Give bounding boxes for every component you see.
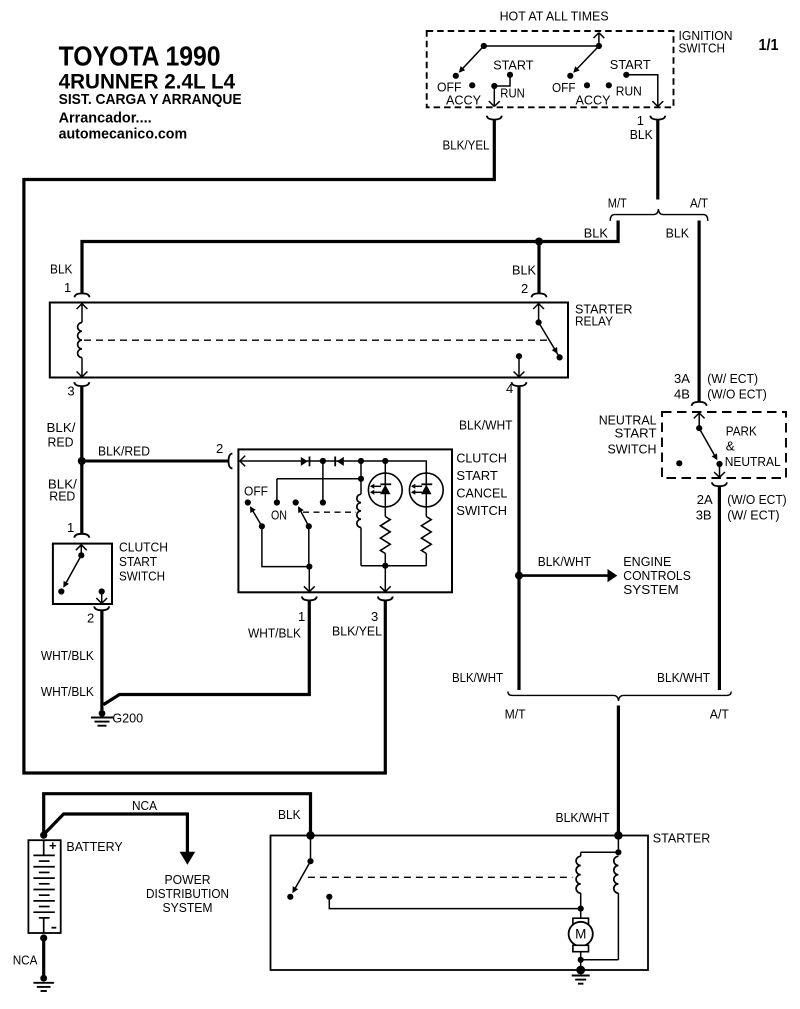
svg-text:ACCY: ACCY bbox=[576, 93, 611, 108]
svg-text:4: 4 bbox=[506, 381, 513, 396]
svg-text:BLK: BLK bbox=[666, 226, 690, 241]
svg-text:BLK/YEL: BLK/YEL bbox=[332, 624, 382, 639]
svg-text:SWITCH: SWITCH bbox=[119, 569, 165, 584]
svg-text:RED: RED bbox=[49, 489, 75, 504]
svg-text:PARK: PARK bbox=[726, 424, 757, 439]
svg-text:SYSTEM: SYSTEM bbox=[623, 582, 679, 597]
svg-text:BLK/WHT: BLK/WHT bbox=[459, 418, 513, 433]
svg-text:START: START bbox=[493, 58, 533, 73]
svg-text:HOT AT ALL TIMES: HOT AT ALL TIMES bbox=[500, 9, 609, 24]
svg-text:SYSTEM: SYSTEM bbox=[163, 900, 213, 915]
svg-text:STARTER: STARTER bbox=[653, 831, 711, 846]
svg-text:NEUTRAL: NEUTRAL bbox=[725, 454, 781, 469]
svg-text:START: START bbox=[456, 468, 498, 483]
svg-text:A/T: A/T bbox=[690, 196, 708, 211]
svg-text:1: 1 bbox=[637, 113, 644, 128]
svg-text:ENGINE: ENGINE bbox=[623, 554, 671, 569]
svg-text:M/T: M/T bbox=[608, 196, 627, 211]
svg-text:BLK/WHT: BLK/WHT bbox=[538, 554, 591, 569]
svg-text:BLK: BLK bbox=[630, 127, 653, 142]
svg-text:4B: 4B bbox=[674, 387, 690, 402]
svg-text:2: 2 bbox=[216, 441, 223, 456]
svg-text:CANCEL: CANCEL bbox=[456, 486, 507, 501]
svg-text:ON: ON bbox=[271, 508, 287, 523]
svg-text:BLK: BLK bbox=[512, 263, 536, 278]
svg-text:BATTERY: BATTERY bbox=[66, 839, 123, 854]
svg-text:2: 2 bbox=[87, 611, 94, 626]
svg-text:M/T: M/T bbox=[505, 707, 526, 722]
svg-text:3: 3 bbox=[67, 384, 74, 399]
svg-text:WHT/BLK: WHT/BLK bbox=[41, 648, 94, 663]
svg-text:START: START bbox=[610, 57, 651, 72]
svg-text:4RUNNER 2.4L L4: 4RUNNER 2.4L L4 bbox=[59, 71, 236, 94]
svg-text:START: START bbox=[615, 426, 657, 441]
svg-text:(W/ ECT): (W/ ECT) bbox=[727, 507, 779, 522]
svg-text:3A: 3A bbox=[674, 371, 690, 386]
svg-text:RUN: RUN bbox=[616, 84, 642, 99]
svg-text:BLK/YEL: BLK/YEL bbox=[443, 138, 490, 153]
svg-text:&: & bbox=[726, 438, 735, 453]
svg-text:BLK/WHT: BLK/WHT bbox=[452, 670, 503, 685]
svg-text:3B: 3B bbox=[696, 507, 712, 522]
svg-text:ACCY: ACCY bbox=[446, 93, 481, 108]
svg-text:SWITCH: SWITCH bbox=[679, 41, 726, 56]
svg-text:START: START bbox=[119, 554, 157, 569]
svg-text:BLK/: BLK/ bbox=[47, 420, 76, 435]
svg-text:2: 2 bbox=[521, 281, 528, 296]
svg-text:WHT/BLK: WHT/BLK bbox=[248, 626, 301, 641]
svg-text:SWITCH: SWITCH bbox=[456, 503, 507, 518]
svg-text:DISTRIBUTION: DISTRIBUTION bbox=[146, 886, 229, 901]
svg-text:+: + bbox=[49, 838, 57, 853]
svg-text:NCA: NCA bbox=[132, 798, 157, 813]
svg-text:RELAY: RELAY bbox=[575, 314, 613, 329]
svg-text:TOYOTA 1990: TOYOTA 1990 bbox=[59, 41, 221, 72]
svg-text:A/T: A/T bbox=[710, 707, 729, 722]
svg-text:CLUTCH: CLUTCH bbox=[456, 451, 507, 466]
svg-text:RED: RED bbox=[48, 435, 74, 450]
svg-text:BLK/WHT: BLK/WHT bbox=[657, 670, 710, 685]
svg-text:3: 3 bbox=[371, 609, 378, 624]
svg-text:OFF: OFF bbox=[244, 484, 268, 499]
svg-text:CONTROLS: CONTROLS bbox=[623, 568, 691, 583]
svg-text:BLK: BLK bbox=[584, 226, 608, 241]
svg-text:G200: G200 bbox=[112, 710, 143, 725]
svg-text:BLK/WHT: BLK/WHT bbox=[556, 810, 610, 825]
svg-text:1: 1 bbox=[64, 280, 71, 295]
svg-text:(W/O ECT): (W/O ECT) bbox=[727, 492, 787, 507]
svg-text:BLK/RED: BLK/RED bbox=[98, 444, 150, 459]
svg-text:CLUTCH: CLUTCH bbox=[119, 540, 168, 555]
svg-text:BLK: BLK bbox=[278, 807, 301, 822]
svg-text:RUN: RUN bbox=[500, 86, 525, 101]
svg-text:OFF: OFF bbox=[552, 80, 576, 95]
svg-text:NCA: NCA bbox=[13, 953, 38, 968]
svg-text:WHT/BLK: WHT/BLK bbox=[41, 684, 94, 699]
svg-text:M: M bbox=[575, 927, 586, 942]
svg-text:1: 1 bbox=[67, 520, 74, 535]
svg-text:automecanico.com: automecanico.com bbox=[59, 126, 188, 143]
svg-text:Arrancador....: Arrancador.... bbox=[59, 110, 152, 127]
svg-text:SWITCH: SWITCH bbox=[608, 442, 657, 457]
svg-text:POWER: POWER bbox=[165, 872, 211, 887]
svg-text:SIST. CARGA Y ARRANQUE: SIST. CARGA Y ARRANQUE bbox=[59, 92, 242, 108]
svg-text:BLK: BLK bbox=[50, 262, 73, 277]
svg-text:2A: 2A bbox=[697, 492, 713, 507]
svg-text:(W/O ECT): (W/O ECT) bbox=[707, 387, 767, 402]
svg-text:(W/ ECT): (W/ ECT) bbox=[707, 371, 758, 386]
svg-text:1: 1 bbox=[298, 609, 305, 624]
svg-text:1/1: 1/1 bbox=[759, 37, 779, 54]
